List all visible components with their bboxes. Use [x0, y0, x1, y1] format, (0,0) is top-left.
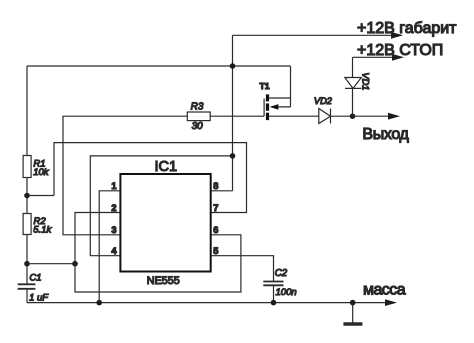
capacitor C1 [18, 284, 36, 289]
svg-text:8: 8 [213, 181, 218, 191]
wire vertical supply riser x=232.5 [232, 35, 234, 191]
node arrow Выход [388, 113, 400, 120]
transistor T1 gate line [263, 99, 265, 117]
resistor R1 [23, 156, 31, 178]
wire VD2 to output node [331, 115, 353, 117]
svg-text:NE555: NE555 [147, 275, 180, 287]
svg-text:R3: R3 [191, 101, 204, 112]
svg-text:3: 3 [111, 225, 116, 235]
wire ground rail [27, 302, 387, 304]
wire +12V stop rail [353, 56, 395, 58]
node arrow +12V gabarit [391, 32, 403, 39]
junction supply/riser [230, 63, 236, 69]
junction pin1/ground [96, 300, 102, 306]
wire junction to discharge riser [27, 195, 54, 197]
svg-text:масса: масса [363, 281, 406, 298]
diode VD2 [319, 109, 331, 124]
junction C2/ground [271, 300, 277, 306]
svg-text:6: 6 [213, 225, 218, 235]
svg-text:5.1k: 5.1k [33, 225, 52, 236]
wire horizontal supply rail y=66 [27, 65, 291, 67]
wire T1 source to VD2 [269, 115, 319, 117]
svg-text:5: 5 [213, 246, 218, 256]
wire R2 bottom to junction [26, 235, 28, 284]
wire pin1 to ground [99, 191, 120, 303]
transistor T1 channel bars [266, 94, 269, 120]
wire C2 to ground rail [273, 285, 275, 302]
wire C1 to ground rail [26, 289, 28, 303]
wire pin4 reset riser [90, 156, 232, 256]
svg-text:1 uF: 1 uF [29, 292, 49, 303]
wire left rail top to R1 [26, 66, 28, 156]
wire R3 to gate [210, 115, 264, 117]
wire junction to trigger riser [27, 263, 75, 265]
capacitor C2 [263, 282, 283, 286]
wire pin8 stub [211, 190, 233, 192]
wire T1 body with arrow [272, 106, 291, 108]
wire discharge riser x=54 [54, 143, 247, 213]
svg-text:+12В габарит: +12В габарит [357, 20, 457, 37]
node arrow massa [385, 299, 397, 306]
junction R2/C1/trigger [24, 261, 30, 267]
wire pin5 to C2 [211, 256, 274, 281]
svg-text:2: 2 [111, 203, 116, 213]
svg-text:IC1: IC1 [155, 159, 178, 175]
svg-text:30: 30 [192, 121, 204, 132]
svg-text:C2: C2 [275, 268, 288, 279]
svg-text:100n: 100n [276, 287, 297, 298]
svg-text:1: 1 [111, 181, 116, 191]
svg-text:+12В СТОП: +12В СТОП [357, 42, 443, 59]
junction trigger riser [72, 261, 78, 267]
svg-text:7: 7 [213, 203, 218, 213]
junction ground symbol tap [350, 300, 356, 306]
ground [352, 303, 354, 323]
resistor R2 [23, 214, 31, 235]
IC U1 NE555 body [120, 174, 210, 272]
wire output arrow line [353, 115, 391, 117]
wire +12V gabarit rail [233, 34, 394, 36]
junction reset/supply riser [230, 153, 236, 159]
svg-text:4: 4 [111, 246, 117, 256]
wire VD1 branch [352, 57, 354, 116]
wire T1 drain [269, 66, 290, 98]
wire pin2 trigger riser [75, 213, 241, 293]
svg-text:T1: T1 [260, 81, 270, 91]
wire pin3 output to R3 [63, 116, 187, 235]
wire R1 bottom to junction [26, 178, 28, 214]
svg-text:10k: 10k [33, 167, 50, 178]
svg-text:VD1: VD1 [360, 72, 370, 90]
svg-text:VD2: VD2 [314, 96, 333, 106]
junction R1/R2/pin7 [24, 193, 30, 199]
svg-text:C1: C1 [29, 272, 41, 283]
arrow T1 body [270, 104, 279, 110]
node arrow +12V STOP [392, 54, 404, 61]
resistor R3 [187, 112, 210, 121]
diode VD1 [345, 78, 362, 89]
junction output node [350, 113, 356, 119]
svg-text:Выход: Выход [362, 126, 409, 143]
